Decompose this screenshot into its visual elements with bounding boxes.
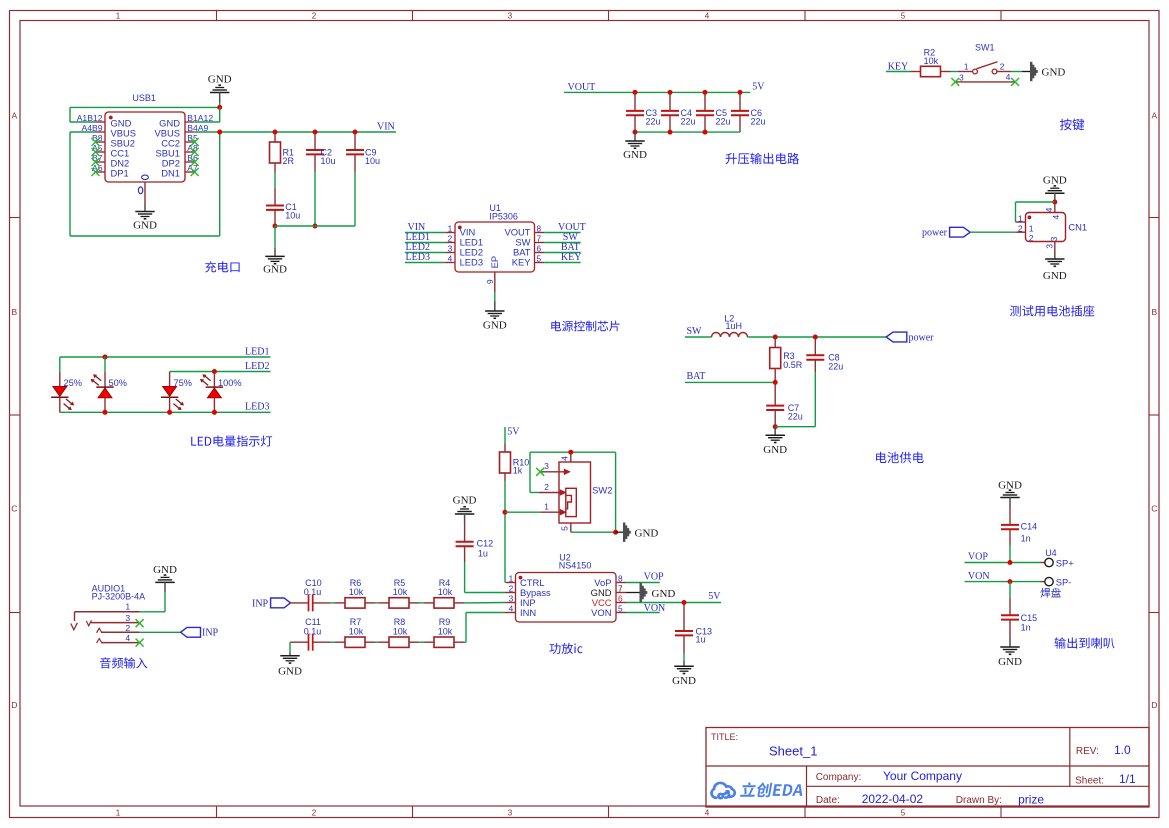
AUDIO1 pin1 bbox=[75, 611, 140, 613]
pad U4 SP+ bbox=[1040, 562, 1045, 564]
AUDIO1 pin4 bbox=[101, 642, 140, 644]
svg-text:1u: 1u bbox=[696, 635, 706, 645]
wire C15 to ground bbox=[1009, 637, 1011, 647]
svg-text:4: 4 bbox=[1006, 72, 1011, 82]
svg-text:5V: 5V bbox=[708, 591, 721, 602]
capacitor C15 bbox=[1009, 582, 1011, 598]
capacitor C14 bbox=[1009, 508, 1011, 525]
wire KEY bbox=[886, 71, 911, 73]
annotation amplifier ic bbox=[550, 643, 583, 654]
junction SW2 gnd bbox=[613, 530, 618, 535]
svg-text:0.1u: 0.1u bbox=[304, 627, 322, 637]
svg-text:9: 9 bbox=[485, 279, 495, 284]
svg-text:75%: 75% bbox=[174, 378, 192, 388]
wire R2 to SW1 bbox=[951, 71, 959, 73]
wire C14 to VOP bbox=[1009, 545, 1011, 563]
no-connect SW1 pin3 bbox=[951, 78, 959, 86]
svg-text:KEY: KEY bbox=[512, 257, 532, 268]
ground GND below C13 bbox=[674, 665, 693, 667]
svg-text:INN: INN bbox=[520, 607, 536, 618]
svg-text:7: 7 bbox=[537, 234, 542, 244]
annotation speaker output bbox=[1055, 637, 1115, 648]
svg-text:2R: 2R bbox=[283, 156, 295, 166]
ground GND below C11 bbox=[280, 655, 299, 657]
junction C8 top bbox=[813, 335, 818, 340]
no-connect AUDIO1 pin3 bbox=[136, 619, 144, 627]
wire VOP bbox=[965, 562, 1041, 564]
annotation LED battery indicator bbox=[191, 435, 272, 446]
svg-text:LED3: LED3 bbox=[460, 257, 483, 268]
svg-text:EP: EP bbox=[489, 256, 500, 269]
wire AUDIO1 pin1 to gnd bbox=[164, 592, 166, 612]
capacitor C11 bbox=[290, 641, 309, 643]
resistor R10 bbox=[504, 444, 506, 453]
annotation boost output bbox=[726, 153, 800, 165]
AUDIO1 pin3 bbox=[91, 622, 140, 624]
annotation power control chip bbox=[551, 321, 619, 332]
wire C12 to Bypass bbox=[464, 562, 466, 592]
svg-text:A1B12: A1B12 bbox=[77, 113, 103, 123]
svg-text:USB1: USB1 bbox=[132, 93, 156, 103]
USB1 shield pin wire bbox=[144, 182, 146, 204]
wire R9 to U2 INN bbox=[464, 641, 466, 643]
resistor R9 bbox=[424, 641, 434, 643]
capacitor C13 bbox=[683, 603, 685, 632]
svg-text:LED3: LED3 bbox=[245, 401, 269, 412]
svg-text:1: 1 bbox=[544, 502, 549, 512]
svg-text:3: 3 bbox=[509, 594, 514, 604]
svg-text:3: 3 bbox=[1045, 244, 1055, 249]
svg-text:U4: U4 bbox=[1045, 548, 1057, 558]
svg-text:1: 1 bbox=[116, 12, 121, 21]
junction C13 top bbox=[682, 600, 687, 605]
ground GND below C1 bbox=[274, 226, 276, 248]
U2 left pin stubs bbox=[506, 582, 516, 584]
flag INP audio bbox=[181, 627, 201, 637]
capacitor C12 bbox=[464, 523, 466, 542]
svg-text:GND: GND bbox=[998, 656, 1022, 668]
connector CN1 body bbox=[1026, 213, 1066, 242]
svg-text:GND: GND bbox=[1043, 270, 1067, 282]
junction GND top bbox=[217, 105, 222, 110]
frame column ticks bottom bbox=[216, 806, 218, 818]
svg-text:GND: GND bbox=[623, 149, 647, 161]
svg-text:GND: GND bbox=[153, 564, 177, 576]
svg-text:A: A bbox=[1151, 111, 1157, 121]
wire to SW2 pin1 bbox=[505, 511, 540, 513]
svg-text:5: 5 bbox=[901, 12, 906, 21]
svg-text:SW: SW bbox=[687, 326, 703, 337]
power flag to CN1 pin2 bbox=[950, 227, 971, 237]
svg-text:1: 1 bbox=[964, 62, 969, 72]
U1 left pins wires bbox=[405, 232, 445, 234]
wire pin2 to INP flag bbox=[140, 631, 181, 633]
wire R6-R5 bbox=[375, 602, 379, 604]
svg-text:DN1: DN1 bbox=[161, 167, 180, 178]
junction bottom rail bbox=[668, 130, 673, 135]
resistor R7 bbox=[335, 641, 345, 643]
ground GND flag right of SW2 bbox=[623, 523, 625, 542]
svg-text:DP1: DP1 bbox=[111, 167, 129, 178]
power flag battery bbox=[886, 332, 907, 342]
LED D3 75% bbox=[169, 371, 171, 374]
svg-text:3: 3 bbox=[125, 613, 130, 623]
capacitor C7 bbox=[774, 382, 776, 405]
svg-text:10u: 10u bbox=[365, 156, 380, 166]
flag INP input bbox=[271, 598, 291, 608]
svg-text:LED1: LED1 bbox=[245, 346, 269, 357]
svg-text:10k: 10k bbox=[349, 587, 364, 597]
svg-text:4: 4 bbox=[509, 604, 514, 614]
SW2 pin2 arrow bbox=[530, 492, 539, 494]
svg-text:BAT: BAT bbox=[687, 371, 706, 382]
svg-text:prize: prize bbox=[1018, 793, 1044, 807]
capacitor C9 bbox=[353, 130, 358, 135]
svg-text:1u: 1u bbox=[478, 548, 488, 558]
junction C3 bottom bbox=[633, 130, 638, 135]
svg-text:C12: C12 bbox=[477, 539, 494, 549]
svg-text:LED3: LED3 bbox=[406, 252, 430, 263]
svg-text:REV:: REV: bbox=[1076, 746, 1099, 757]
svg-text:VON: VON bbox=[644, 603, 666, 614]
wire C11 left to ground bbox=[289, 642, 291, 652]
svg-text:2: 2 bbox=[448, 234, 453, 244]
svg-text:GND: GND bbox=[133, 220, 157, 232]
svg-text:C14: C14 bbox=[1021, 522, 1038, 532]
capacitor C8 bbox=[814, 337, 816, 355]
wire R1 to C1 bbox=[274, 173, 276, 189]
svg-text:B1A12: B1A12 bbox=[187, 113, 213, 123]
wire R8-R9 bbox=[419, 641, 424, 643]
svg-text:GND: GND bbox=[1042, 67, 1066, 79]
svg-text:3: 3 bbox=[1049, 237, 1059, 242]
svg-text:22u: 22u bbox=[788, 412, 803, 422]
junction C1 bottom bbox=[273, 224, 278, 229]
svg-text:GND: GND bbox=[672, 675, 696, 687]
svg-text:NS4150: NS4150 bbox=[559, 561, 592, 571]
svg-text:KEY: KEY bbox=[561, 252, 582, 263]
svg-text:25%: 25% bbox=[64, 378, 82, 388]
svg-text:10u: 10u bbox=[285, 210, 300, 220]
wire VBUS loop left-bottom bbox=[70, 131, 96, 133]
wire R10 to U2 CTRL bbox=[504, 481, 506, 583]
wire C9 bottom bbox=[354, 172, 356, 226]
wire 5V to R10 bbox=[504, 427, 506, 444]
USB1 left pin stubs bbox=[96, 121, 106, 123]
svg-text:CN1: CN1 bbox=[1068, 221, 1087, 232]
svg-text:22u: 22u bbox=[751, 117, 766, 127]
resistor R4 bbox=[424, 602, 434, 604]
svg-text:1k: 1k bbox=[513, 466, 523, 476]
LED D2 50% bbox=[103, 355, 108, 360]
svg-text:4: 4 bbox=[705, 12, 710, 21]
resistor R6 bbox=[335, 602, 345, 604]
svg-text:1n: 1n bbox=[1021, 534, 1031, 544]
frame row ticks left bbox=[10, 217, 21, 219]
SW2 pin5 stub bbox=[570, 523, 572, 532]
SW1 pins 3-4 link bbox=[955, 81, 1015, 83]
svg-text:1/1: 1/1 bbox=[1119, 772, 1136, 786]
wire power to CN1 pin2 bbox=[970, 231, 1015, 233]
svg-text:2: 2 bbox=[509, 584, 514, 594]
svg-text:1: 1 bbox=[448, 224, 453, 234]
svg-text:3: 3 bbox=[544, 461, 549, 471]
svg-text:22u: 22u bbox=[716, 117, 731, 127]
junction R3 top bbox=[773, 335, 778, 340]
svg-text:GND: GND bbox=[763, 444, 787, 456]
svg-text:SP-: SP- bbox=[1056, 577, 1072, 588]
svg-text:R7: R7 bbox=[350, 617, 362, 627]
svg-text:2: 2 bbox=[544, 482, 549, 492]
wire VON bbox=[965, 581, 1041, 583]
svg-text:2022-04-02: 2022-04-02 bbox=[862, 792, 924, 806]
ground GND flag right of SW1 bbox=[1030, 62, 1032, 81]
svg-text:VOP: VOP bbox=[644, 572, 664, 583]
svg-text:VIN: VIN bbox=[377, 122, 395, 133]
junction CN1 pin4 bbox=[1052, 200, 1057, 205]
ground GND below U1 bbox=[485, 310, 504, 312]
svg-text:C15: C15 bbox=[1021, 613, 1038, 623]
svg-text:power: power bbox=[922, 227, 948, 238]
svg-text:10k: 10k bbox=[349, 627, 364, 637]
svg-text:B8: B8 bbox=[92, 133, 103, 143]
capacitor C5 bbox=[703, 90, 708, 95]
svg-text:INP: INP bbox=[252, 599, 269, 610]
svg-text:22u: 22u bbox=[681, 117, 696, 127]
frame column ticks top bbox=[216, 11, 218, 21]
svg-text:0.1u: 0.1u bbox=[304, 587, 322, 597]
svg-text:B: B bbox=[11, 307, 17, 317]
svg-text:0.5R: 0.5R bbox=[783, 360, 803, 370]
svg-text:GND: GND bbox=[1043, 175, 1067, 187]
USB1 shield pin 0 markers bbox=[142, 175, 149, 179]
svg-text:INP: INP bbox=[202, 628, 219, 639]
junction R1 top bbox=[273, 130, 278, 135]
logo LCEDA text bbox=[740, 782, 805, 797]
junction VOP C14 bbox=[1008, 560, 1013, 565]
wire U2 GND pin bbox=[626, 592, 641, 594]
svg-text:1: 1 bbox=[1029, 224, 1034, 234]
svg-text:4: 4 bbox=[1051, 215, 1061, 220]
switch SW2 body bbox=[559, 462, 591, 523]
svg-text:3: 3 bbox=[508, 12, 513, 21]
wire GND right vertical bbox=[219, 107, 221, 122]
svg-text:4: 4 bbox=[1044, 207, 1054, 212]
svg-text:R8: R8 bbox=[394, 617, 406, 627]
svg-text:7: 7 bbox=[618, 584, 623, 594]
wire net LED3 bbox=[60, 411, 271, 413]
wire C11 to R7 bbox=[330, 641, 335, 643]
svg-text:KEY: KEY bbox=[888, 61, 909, 72]
annotation charging port bbox=[205, 261, 239, 272]
wire C10 to R6 bbox=[330, 602, 335, 604]
junction C7 bottom bbox=[773, 424, 778, 429]
capacitor C2 bbox=[313, 130, 318, 135]
svg-text:22u: 22u bbox=[646, 117, 661, 127]
wire R4 to U2 INP bbox=[464, 602, 506, 604]
svg-text:GND: GND bbox=[652, 588, 676, 600]
USB1 right pin stubs bbox=[185, 121, 195, 123]
svg-text:1: 1 bbox=[116, 808, 121, 817]
junction VON C15 bbox=[1008, 579, 1013, 584]
title block frame bbox=[706, 728, 1149, 808]
svg-text:SW1: SW1 bbox=[975, 42, 995, 52]
svg-text:Company:: Company: bbox=[816, 772, 862, 783]
ground GND below C3 bbox=[634, 132, 636, 141]
svg-text:GND: GND bbox=[263, 264, 287, 276]
svg-text:C11: C11 bbox=[305, 617, 321, 627]
svg-text:A4B9: A4B9 bbox=[81, 123, 102, 133]
svg-text:Sheet:: Sheet: bbox=[1075, 776, 1104, 787]
U2 right pin stubs bbox=[616, 582, 626, 584]
wire L2 to power flag bbox=[748, 336, 887, 338]
ground GND below USB1 bbox=[135, 211, 154, 213]
capacitor C6 bbox=[738, 90, 743, 95]
LED D4 100% bbox=[212, 369, 217, 374]
svg-text:10k: 10k bbox=[438, 587, 453, 597]
svg-text:2: 2 bbox=[312, 12, 317, 21]
svg-text:2: 2 bbox=[1000, 62, 1005, 72]
svg-text:GND: GND bbox=[635, 527, 659, 539]
svg-text:8: 8 bbox=[618, 574, 623, 584]
capacitor C1 bbox=[274, 188, 276, 206]
svg-text:VON: VON bbox=[968, 571, 990, 582]
svg-text:A: A bbox=[11, 111, 17, 121]
junction BAT R3 C7 bbox=[773, 380, 778, 385]
svg-text:IP5306: IP5306 bbox=[489, 212, 518, 222]
svg-text:1n: 1n bbox=[1021, 623, 1031, 633]
wire CN1 pin4 loop to pin1 bbox=[1016, 201, 1055, 203]
USB1 no-connect marks left bbox=[92, 138, 100, 146]
svg-text:VOUT: VOUT bbox=[568, 82, 596, 93]
capacitor C10 bbox=[291, 602, 309, 604]
U1 right pins wires bbox=[535, 232, 545, 234]
svg-text:100%: 100% bbox=[218, 378, 242, 388]
wire VoP out bbox=[626, 582, 660, 584]
capacitor C4 bbox=[668, 90, 673, 95]
svg-text:10k: 10k bbox=[924, 56, 939, 66]
wire C2 bottom bbox=[314, 172, 316, 226]
svg-text:C: C bbox=[11, 504, 17, 514]
svg-text:5: 5 bbox=[560, 526, 570, 531]
svg-text:3: 3 bbox=[959, 73, 964, 83]
USB1 no-connect marks right bbox=[191, 138, 199, 146]
wire SW2 right side bbox=[615, 452, 617, 532]
svg-text:1: 1 bbox=[125, 601, 130, 611]
wire net LED1 bbox=[60, 356, 271, 358]
svg-text:GND: GND bbox=[208, 74, 232, 86]
annotation battery power bbox=[876, 452, 924, 463]
svg-text:5V: 5V bbox=[507, 427, 520, 438]
IC U1 body bbox=[455, 222, 535, 272]
svg-text:Drawn By:: Drawn By: bbox=[956, 795, 1002, 806]
ground GND flag right of U2 bbox=[640, 583, 642, 602]
svg-text:1uH: 1uH bbox=[726, 321, 743, 331]
svg-text:Your Company: Your Company bbox=[883, 769, 962, 783]
svg-text:2: 2 bbox=[1029, 233, 1034, 243]
wire BAT bbox=[685, 381, 775, 383]
wire bottom rail caps bbox=[275, 225, 355, 227]
svg-text:D: D bbox=[1151, 700, 1157, 710]
logo LCEDA cloud bbox=[712, 783, 735, 798]
svg-text:50%: 50% bbox=[109, 378, 127, 388]
pad SP- bbox=[1040, 581, 1045, 583]
svg-text:8: 8 bbox=[537, 224, 542, 234]
svg-text:GND: GND bbox=[483, 320, 507, 332]
svg-text:6: 6 bbox=[618, 594, 623, 604]
resistor R1 bbox=[274, 132, 276, 142]
svg-text:VOP: VOP bbox=[968, 552, 988, 563]
no-connect AUDIO1 pin4 bbox=[136, 639, 144, 647]
svg-text:LED2: LED2 bbox=[245, 361, 269, 372]
svg-text:PJ-3200B-4A: PJ-3200B-4A bbox=[92, 592, 146, 602]
svg-text:B4A9: B4A9 bbox=[187, 123, 208, 133]
svg-text:5: 5 bbox=[618, 604, 623, 614]
resistor R2 bbox=[911, 71, 921, 73]
svg-text:5V: 5V bbox=[752, 82, 765, 93]
svg-text:10k: 10k bbox=[438, 627, 453, 637]
connector CN1 pin1 stub bbox=[1016, 221, 1026, 223]
svg-text:10k: 10k bbox=[393, 627, 408, 637]
svg-text:4: 4 bbox=[125, 633, 130, 643]
junction VBUS-VIN bbox=[217, 130, 222, 135]
svg-text:5: 5 bbox=[537, 254, 542, 264]
wire R5-R4 bbox=[419, 602, 424, 604]
wire C8 bottom bbox=[814, 372, 816, 427]
ground GND below C7 bbox=[774, 427, 776, 435]
ground GND below C15 bbox=[1000, 646, 1019, 648]
wire GND top loop bbox=[70, 106, 220, 108]
svg-text:1: 1 bbox=[509, 574, 514, 584]
svg-text:R9: R9 bbox=[439, 617, 451, 627]
svg-text:GND: GND bbox=[453, 495, 477, 507]
annotation audio input bbox=[100, 657, 147, 668]
wire net LED2 bbox=[170, 371, 271, 373]
junction R10 SW2 branch bbox=[503, 510, 508, 515]
capacitor C3 bbox=[633, 90, 638, 95]
connector CN1 pin4 stub bbox=[1054, 202, 1056, 213]
svg-text:Sheet_1: Sheet_1 bbox=[769, 744, 817, 759]
LED D1 25% bbox=[59, 357, 61, 372]
SW2 slider graphic bbox=[566, 488, 577, 516]
resistor R3 bbox=[774, 337, 776, 348]
wire EP to ground bbox=[494, 292, 496, 302]
svg-text:1: 1 bbox=[1018, 213, 1023, 223]
no-connect SW1 pin4 bbox=[1011, 78, 1019, 86]
wire VOUT 5V rail bbox=[564, 91, 750, 93]
svg-text:2: 2 bbox=[125, 623, 130, 633]
svg-text:4: 4 bbox=[448, 254, 453, 264]
resistor R5 bbox=[379, 602, 389, 604]
svg-text:B: B bbox=[1151, 307, 1157, 317]
SW2 pin1 arrow bbox=[540, 511, 560, 513]
resistor R8 bbox=[379, 641, 389, 643]
svg-text:3: 3 bbox=[448, 244, 453, 254]
svg-text:VON: VON bbox=[591, 607, 611, 618]
U1 pin 9 EP stub bbox=[494, 272, 496, 292]
junction SW2 pin4 bbox=[568, 450, 573, 455]
svg-text:D: D bbox=[11, 700, 17, 710]
svg-text:10k: 10k bbox=[393, 587, 408, 597]
SW2 pin4 stub bbox=[570, 452, 572, 462]
ground GND below CN1 bbox=[1045, 258, 1064, 260]
wire SW to L2 bbox=[685, 336, 712, 338]
wire C13 bottom bbox=[683, 653, 685, 661]
svg-text:C: C bbox=[1151, 504, 1157, 514]
wire VCC 5V bbox=[626, 602, 721, 604]
svg-text:SW2: SW2 bbox=[592, 485, 612, 496]
svg-text:TITLE:: TITLE: bbox=[711, 732, 738, 742]
